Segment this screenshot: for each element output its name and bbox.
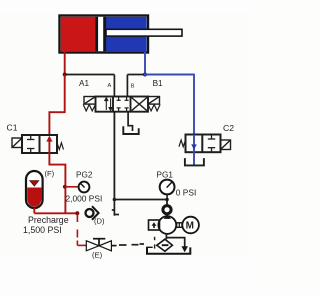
svg-text:PG1: PG1: [157, 171, 174, 180]
spring of C1: [57, 143, 64, 150]
svg-text:(E): (E): [92, 251, 103, 260]
gauge PG1: [160, 180, 175, 200]
svg-text:A: A: [108, 83, 112, 89]
wire A port drop: [113, 75, 115, 97]
wire blue drop to C2: [193, 75, 195, 135]
op valve U1: 4/3 directional control valve body: [96, 97, 149, 112]
wire to PG2: [65, 186, 79, 188]
valve position 2: closed center stubs: [117, 97, 129, 112]
svg-text:0 PSI: 0 PSI: [176, 188, 196, 198]
wire return branch with arrow: [166, 238, 184, 247]
wire B port drop: [126, 75, 128, 97]
wire A1 horizontal to valve port A: [65, 74, 115, 76]
svg-text:2,000 PSI: 2,000 PSI: [66, 194, 103, 204]
wire dashed drain line to tank: [119, 244, 144, 245]
piston: [95, 17, 98, 52]
motor M1: [182, 217, 199, 234]
C2 blocked port symbols: [208, 135, 215, 153]
node P line stub: [112, 200, 119, 216]
wire B1 horizontal black part: [127, 74, 144, 76]
cylinder rod-end blue fill: [106, 17, 147, 52]
valve position 3: crossed arrows: [132, 98, 148, 111]
svg-text:M: M: [186, 221, 194, 232]
C1 blocked port symbols: [27, 135, 34, 153]
C1 flow arrow (red, up): [48, 137, 50, 153]
solenoid of C2: [221, 140, 231, 150]
pump compensator box: [149, 220, 160, 230]
cylinder barrel: [60, 16, 183, 53]
wire: blue rod-end port line: [144, 52, 146, 75]
wire blue C2 to tank: [193, 152, 195, 165]
node A1 junction: [63, 73, 67, 77]
svg-text:(D): (D): [94, 217, 105, 226]
valve C1 body: [22, 135, 57, 153]
node pump junction: [113, 198, 117, 202]
valve position 1: parallel arrows: [105, 98, 112, 111]
C2 flow line (blue, down): [193, 135, 195, 153]
svg-text:A1: A1: [79, 79, 89, 88]
filter diamond: [157, 239, 173, 251]
shutoff valve E: [86, 241, 111, 251]
coupling: [177, 223, 182, 228]
cylinder cap-end red fill: [61, 17, 96, 52]
piston rod: [106, 29, 182, 36]
wire P line down: [113, 112, 115, 200]
tank below C2: [185, 158, 204, 165]
wire dashed case drain: [154, 237, 156, 249]
tank (reservoir): [147, 247, 190, 254]
node PG2 junction: [63, 185, 67, 189]
node bus-D junction: [75, 211, 79, 215]
svg-text:C2: C2: [223, 123, 234, 133]
wire P to pump check: [114, 200, 167, 206]
node B1 junction: [143, 73, 147, 77]
spring right of U1: [148, 105, 160, 111]
wire red C1 to bus: [49, 153, 65, 213]
solenoid left of U1: [84, 97, 96, 105]
tank (T return): [123, 126, 138, 134]
accumulator F: [26, 171, 43, 208]
svg-text:B1: B1: [153, 79, 163, 88]
solenoid right of U1: [148, 97, 160, 105]
wire red bus: [34, 212, 77, 214]
spring left of U1: [83, 105, 95, 111]
wire pump to filter: [165, 234, 167, 239]
valve C2 body: [186, 135, 221, 153]
wire: red cap-end port line: [64, 52, 66, 75]
check valve above pump: [163, 206, 171, 214]
wire T drain: [128, 112, 132, 131]
solenoid of C1: [12, 138, 22, 148]
wire red A1 to C1: [49, 75, 64, 136]
gauge PG2: [79, 182, 90, 193]
check valve D (ball and seat): [86, 206, 99, 220]
svg-text:PG2: PG2: [76, 171, 93, 180]
svg-text:B: B: [131, 84, 135, 90]
svg-text:1,500 PSI: 1,500 PSI: [23, 225, 62, 235]
spring of C2: [179, 140, 186, 147]
wire accumulator drop: [33, 208, 35, 214]
pump P1: [158, 214, 176, 234]
wire red dashed to E: [77, 213, 86, 245]
svg-text:C1: C1: [7, 123, 18, 133]
wire B1 horizontal blue to C2: [144, 74, 195, 76]
svg-text:(F): (F): [45, 169, 55, 178]
svg-text:Precharge: Precharge: [28, 215, 69, 225]
